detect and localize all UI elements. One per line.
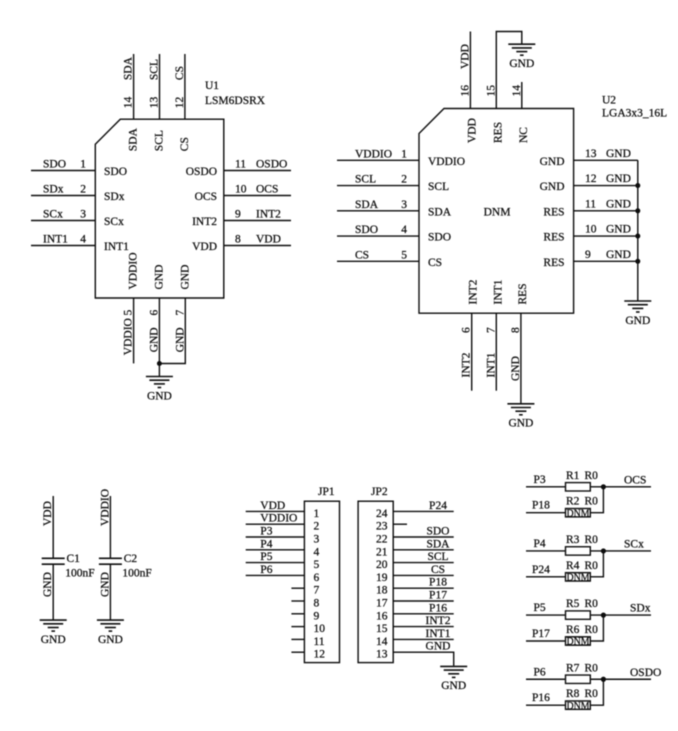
svg-text:INT2: INT2 — [256, 209, 281, 221]
svg-text:2: 2 — [314, 521, 320, 533]
svg-text:JP2: JP2 — [371, 486, 388, 498]
svg-text:R0: R0 — [585, 662, 599, 674]
svg-text:21: 21 — [376, 546, 388, 558]
svg-text:2: 2 — [401, 174, 407, 186]
svg-text:R0: R0 — [585, 624, 599, 636]
svg-text:10: 10 — [585, 224, 597, 236]
svg-text:13: 13 — [149, 97, 161, 109]
svg-text:RES: RES — [543, 257, 564, 269]
svg-text:CS: CS — [355, 249, 369, 261]
svg-text:VDD: VDD — [260, 500, 285, 512]
svg-text:P6: P6 — [534, 666, 546, 678]
svg-text:14: 14 — [376, 636, 388, 648]
svg-text:GND: GND — [174, 327, 186, 352]
svg-text:VDDIO: VDDIO — [260, 513, 297, 525]
svg-text:SDO: SDO — [428, 232, 451, 244]
svg-text:R4: R4 — [566, 560, 580, 572]
svg-text:VDDIO: VDDIO — [128, 252, 140, 289]
svg-text:7: 7 — [174, 310, 186, 316]
svg-text:5: 5 — [314, 559, 320, 571]
svg-text:CS: CS — [431, 564, 445, 576]
svg-text:11: 11 — [585, 198, 596, 210]
svg-text:P6: P6 — [260, 564, 272, 576]
svg-text:OSDO: OSDO — [256, 159, 287, 171]
svg-text:DNM: DNM — [567, 637, 591, 648]
svg-text:6: 6 — [461, 327, 473, 333]
svg-text:GND: GND — [153, 265, 165, 290]
svg-text:SCL: SCL — [154, 130, 166, 151]
svg-text:DNM: DNM — [567, 701, 591, 712]
svg-text:P16: P16 — [532, 692, 550, 704]
svg-text:SCL: SCL — [428, 181, 449, 193]
svg-text:14: 14 — [123, 97, 135, 109]
svg-text:U1: U1 — [205, 80, 219, 92]
svg-text:GND: GND — [509, 58, 534, 70]
svg-text:CS: CS — [428, 257, 442, 269]
svg-text:16: 16 — [376, 610, 388, 622]
svg-text:13: 13 — [585, 148, 597, 160]
svg-text:SDO: SDO — [355, 224, 378, 236]
svg-text:DNM: DNM — [567, 572, 591, 583]
svg-text:P18: P18 — [532, 500, 550, 512]
svg-text:INT1: INT1 — [43, 234, 68, 246]
svg-text:P17: P17 — [532, 628, 550, 640]
svg-text:4: 4 — [401, 224, 407, 236]
svg-text:RES: RES — [543, 232, 564, 244]
svg-text:R7: R7 — [566, 662, 580, 674]
svg-text:R3: R3 — [566, 534, 580, 546]
svg-text:GND: GND — [606, 173, 631, 185]
svg-text:R6: R6 — [566, 624, 580, 636]
svg-text:23: 23 — [376, 521, 388, 533]
svg-text:GND: GND — [606, 249, 631, 261]
svg-text:8: 8 — [510, 327, 522, 333]
svg-text:SDA: SDA — [355, 199, 379, 211]
svg-text:11: 11 — [235, 159, 246, 171]
svg-text:P5: P5 — [534, 602, 546, 614]
svg-text:R0: R0 — [585, 560, 599, 572]
svg-text:SCx: SCx — [104, 216, 124, 228]
svg-text:9: 9 — [585, 249, 591, 261]
svg-text:INT1: INT1 — [426, 628, 451, 640]
svg-text:SDA: SDA — [123, 56, 135, 80]
svg-text:SCL: SCL — [427, 551, 448, 563]
svg-text:P3: P3 — [534, 474, 546, 486]
svg-text:14: 14 — [511, 85, 523, 97]
svg-text:VDDIO: VDDIO — [428, 156, 465, 168]
svg-text:7: 7 — [314, 585, 320, 597]
svg-text:VDD: VDD — [42, 501, 54, 526]
svg-text:5: 5 — [401, 249, 407, 261]
svg-text:INT2: INT2 — [468, 279, 480, 304]
svg-text:OSDO: OSDO — [630, 667, 661, 679]
svg-text:GND: GND — [179, 265, 191, 290]
svg-text:12: 12 — [585, 173, 597, 185]
svg-text:RES: RES — [543, 206, 564, 218]
svg-text:6: 6 — [148, 310, 160, 316]
svg-text:R8: R8 — [566, 688, 580, 700]
svg-text:SDx: SDx — [104, 191, 125, 203]
svg-text:SDO: SDO — [43, 159, 66, 171]
svg-text:VDDIO: VDDIO — [123, 318, 135, 355]
svg-text:100nF: 100nF — [122, 568, 151, 580]
svg-text:CS: CS — [179, 137, 191, 151]
svg-text:8: 8 — [235, 234, 241, 246]
svg-text:GND: GND — [441, 680, 466, 692]
svg-text:GND: GND — [98, 634, 123, 646]
svg-text:P24: P24 — [532, 564, 550, 576]
svg-text:GND: GND — [510, 356, 522, 381]
svg-text:18: 18 — [376, 585, 388, 597]
svg-text:R5: R5 — [566, 598, 580, 610]
svg-text:VDD: VDD — [256, 234, 281, 246]
svg-text:12: 12 — [314, 649, 326, 661]
svg-text:13: 13 — [376, 649, 388, 661]
svg-text:SDx: SDx — [630, 603, 651, 615]
svg-text:OSDO: OSDO — [186, 166, 217, 178]
svg-text:SDA: SDA — [426, 538, 450, 550]
svg-text:INT1: INT1 — [104, 241, 129, 253]
svg-text:GND: GND — [606, 148, 631, 160]
svg-text:10: 10 — [314, 623, 326, 635]
svg-text:R1: R1 — [566, 470, 580, 482]
svg-text:GND: GND — [147, 390, 172, 402]
svg-text:100nF: 100nF — [65, 568, 94, 580]
svg-text:LGA3x3_16L: LGA3x3_16L — [602, 108, 667, 120]
svg-text:SCx: SCx — [43, 209, 63, 221]
svg-text:3: 3 — [401, 199, 407, 211]
svg-text:P16: P16 — [429, 602, 447, 614]
svg-text:INT1: INT1 — [485, 352, 497, 377]
svg-text:CS: CS — [174, 66, 186, 80]
svg-text:U2: U2 — [602, 94, 616, 106]
svg-text:VDD: VDD — [459, 44, 471, 69]
svg-text:12: 12 — [174, 97, 186, 109]
svg-text:RES: RES — [492, 122, 504, 143]
svg-text:8: 8 — [314, 598, 320, 610]
svg-text:24: 24 — [376, 508, 388, 520]
svg-text:INT2: INT2 — [461, 352, 473, 377]
svg-text:JP1: JP1 — [318, 486, 335, 498]
svg-text:OCS: OCS — [256, 184, 278, 196]
svg-text:VDDIO: VDDIO — [99, 489, 111, 526]
svg-text:15: 15 — [485, 85, 497, 97]
svg-text:SCL: SCL — [149, 59, 161, 80]
svg-text:3: 3 — [80, 209, 86, 221]
svg-text:R2: R2 — [566, 496, 580, 508]
svg-text:INT1: INT1 — [492, 279, 504, 304]
svg-text:1: 1 — [314, 508, 320, 520]
svg-text:GND: GND — [148, 327, 160, 352]
svg-text:GND: GND — [540, 181, 565, 193]
svg-text:1: 1 — [401, 148, 407, 160]
svg-text:11: 11 — [314, 636, 325, 648]
svg-text:20: 20 — [376, 559, 388, 571]
svg-text:4: 4 — [314, 546, 320, 558]
svg-text:GND: GND — [99, 572, 111, 597]
svg-text:INT2: INT2 — [426, 615, 451, 627]
svg-text:P17: P17 — [429, 590, 447, 602]
svg-text:GND: GND — [540, 156, 565, 168]
svg-text:VDDIO: VDDIO — [355, 148, 392, 160]
svg-text:SDx: SDx — [43, 184, 64, 196]
svg-text:GND: GND — [625, 315, 650, 327]
svg-text:INT2: INT2 — [192, 216, 217, 228]
svg-text:5: 5 — [123, 310, 135, 316]
svg-text:1: 1 — [80, 159, 86, 171]
svg-text:3: 3 — [314, 534, 320, 546]
svg-text:P24: P24 — [429, 500, 447, 512]
svg-text:6: 6 — [314, 572, 320, 584]
svg-text:DNM: DNM — [567, 508, 591, 519]
svg-text:9: 9 — [235, 209, 241, 221]
svg-text:VDD: VDD — [192, 241, 217, 253]
svg-text:2: 2 — [80, 184, 86, 196]
svg-text:22: 22 — [376, 534, 388, 546]
svg-text:9: 9 — [314, 610, 320, 622]
svg-text:R0: R0 — [585, 534, 599, 546]
svg-text:SDO: SDO — [104, 166, 127, 178]
svg-text:VDD: VDD — [466, 118, 478, 143]
svg-text:15: 15 — [376, 623, 388, 635]
svg-text:P5: P5 — [260, 551, 272, 563]
svg-text:SCL: SCL — [355, 174, 376, 186]
svg-text:10: 10 — [235, 184, 247, 196]
svg-text:P18: P18 — [429, 577, 447, 589]
svg-text:RES: RES — [517, 283, 529, 304]
svg-text:DNM: DNM — [484, 206, 511, 218]
svg-text:NC: NC — [518, 127, 530, 143]
svg-text:C2: C2 — [124, 553, 138, 565]
svg-text:GND: GND — [426, 641, 451, 653]
svg-text:C1: C1 — [67, 553, 81, 565]
svg-text:OCS: OCS — [624, 474, 646, 486]
svg-text:R0: R0 — [585, 598, 599, 610]
svg-text:17: 17 — [376, 598, 388, 610]
svg-text:GND: GND — [42, 572, 54, 597]
svg-text:GND: GND — [41, 634, 66, 646]
svg-text:16: 16 — [459, 85, 471, 97]
svg-text:P4: P4 — [260, 538, 272, 550]
svg-text:R0: R0 — [585, 496, 599, 508]
svg-text:SCx: SCx — [624, 538, 644, 550]
svg-text:LSM6DSRX: LSM6DSRX — [205, 95, 266, 107]
svg-text:R0: R0 — [585, 470, 599, 482]
svg-text:7: 7 — [485, 327, 497, 333]
svg-text:GND: GND — [508, 418, 533, 430]
svg-text:SDA: SDA — [428, 206, 452, 218]
svg-text:GND: GND — [606, 198, 631, 210]
svg-text:R0: R0 — [585, 688, 599, 700]
svg-text:SDO: SDO — [426, 526, 449, 538]
svg-text:OCS: OCS — [195, 191, 217, 203]
svg-text:P3: P3 — [260, 526, 272, 538]
svg-text:4: 4 — [80, 234, 86, 246]
svg-text:P4: P4 — [534, 538, 546, 550]
svg-text:SDA: SDA — [128, 127, 140, 151]
svg-text:GND: GND — [606, 224, 631, 236]
svg-text:19: 19 — [376, 572, 388, 584]
